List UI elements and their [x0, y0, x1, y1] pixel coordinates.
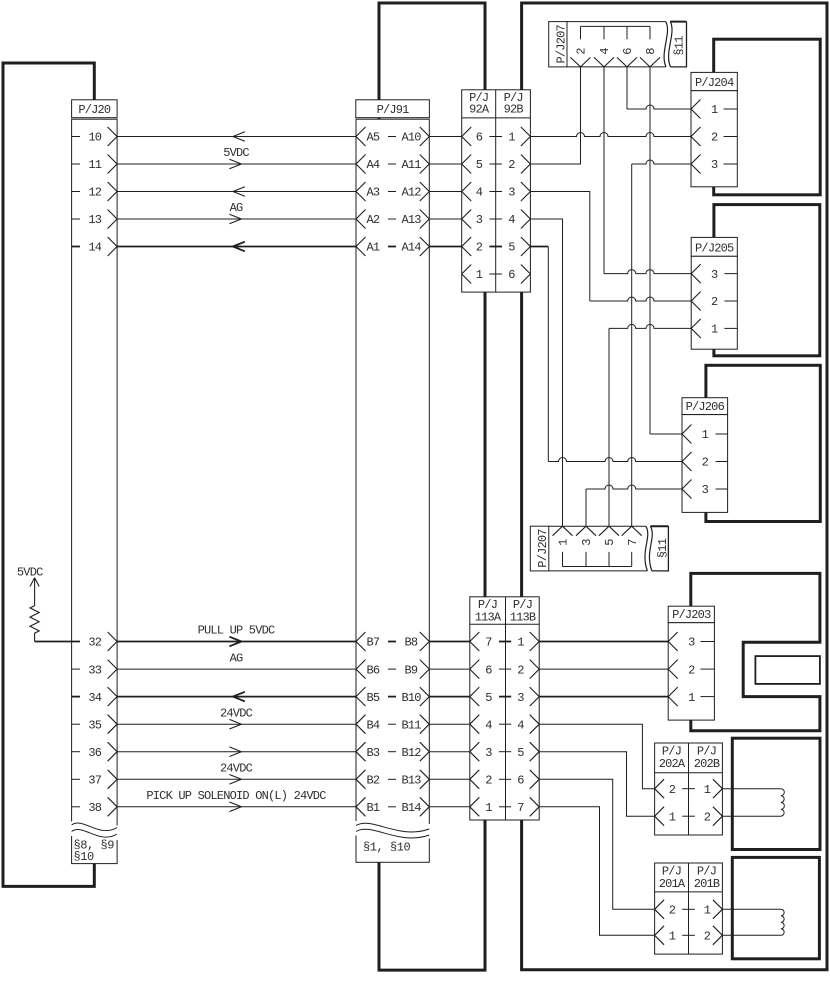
- svg-text:7: 7: [517, 801, 524, 815]
- P/J207 upper break wave and §11 box: [669, 22, 687, 67]
- svg-text:2: 2: [517, 663, 524, 677]
- svg-text:14: 14: [88, 241, 101, 255]
- P/J204 pin 2: [691, 127, 737, 146]
- svg-text:B5: B5: [367, 691, 380, 705]
- svg-text:A11: A11: [402, 158, 422, 172]
- connector P/J206 body: [682, 415, 728, 513]
- P/J20 pin 32: [88, 632, 117, 651]
- svg-text:5: 5: [508, 241, 515, 255]
- svg-text:B11: B11: [402, 718, 422, 732]
- svg-text:37: 37: [88, 774, 101, 788]
- svg-text:202B: 202B: [694, 757, 720, 771]
- svg-text:3: 3: [711, 158, 718, 172]
- right board outline (feeder unit): [522, 3, 827, 970]
- connector P/J205 header: [691, 237, 737, 256]
- P/J91 pin B2-B13: [356, 770, 429, 789]
- connector P/J203 body: [668, 623, 714, 720]
- P/J92A pin 6 / P/J92B pin 1: [462, 127, 531, 146]
- P/J113A pin 5 / P/J113B pin 3: [470, 687, 539, 706]
- wire P/J91 A13 to P/J92A pin 3: [429, 218, 461, 220]
- P/J91 pin A5-A10: [356, 127, 429, 146]
- svg-text:2: 2: [485, 774, 492, 788]
- P/J20 body break wave: [70, 822, 119, 841]
- svg-text:2: 2: [688, 663, 695, 677]
- svg-text:12: 12: [88, 186, 101, 200]
- P/J20 pin 35: [72, 715, 118, 734]
- P/J91 pin B6-B9: [356, 660, 429, 679]
- wire P/J205 pin 1 to P/J207 lower pin 5: [609, 324, 691, 328]
- svg-text:2: 2: [711, 131, 718, 145]
- P/J20 pin 14: [72, 237, 118, 256]
- P/J207 upper pin 4: [594, 48, 614, 67]
- wire P/J20 pin 37 to P/J91 B2: [117, 762, 356, 785]
- svg-text:1: 1: [702, 428, 709, 442]
- svg-text:AG: AG: [230, 651, 243, 665]
- svg-text:B13: B13: [402, 774, 422, 788]
- svg-text:1: 1: [711, 323, 718, 337]
- svg-text:B6: B6: [367, 663, 380, 677]
- svg-text:4: 4: [476, 186, 483, 200]
- P/J203 pin 2: [668, 660, 714, 679]
- svg-text:P/J205: P/J205: [695, 242, 734, 256]
- svg-text:A1: A1: [367, 241, 380, 255]
- svg-text:§11: §11: [672, 36, 686, 56]
- P/J201A pin 2 / P/J201B pin 1: [655, 900, 723, 919]
- svg-text:B1: B1: [367, 801, 380, 815]
- P/J92A pin 3 / P/J92B pin 4: [462, 210, 531, 229]
- P/J113A pin 2 / P/J113B pin 6: [470, 770, 539, 789]
- svg-text:P/J207: P/J207: [536, 529, 550, 568]
- svg-text:24VDC: 24VDC: [220, 762, 253, 776]
- wire P/J113B pin 1 to P/J203 pin 3: [539, 641, 668, 643]
- svg-text:13: 13: [88, 213, 101, 227]
- svg-text:6: 6: [476, 131, 483, 145]
- svg-text:24VDC: 24VDC: [220, 706, 253, 720]
- svg-text:201A: 201A: [659, 877, 686, 891]
- wire P/J20 pin 36 to P/J91 B3: [117, 747, 356, 757]
- P/J91 pin A3-A12: [356, 182, 429, 201]
- P/J113A pin 7 / P/J113B pin 1: [470, 632, 539, 651]
- P/J92A pin 4 / P/J92B pin 3: [462, 182, 531, 201]
- svg-text:§1, §10: §1, §10: [363, 841, 411, 855]
- svg-text:5: 5: [603, 539, 617, 546]
- svg-text:1: 1: [485, 801, 492, 815]
- svg-text:11: 11: [88, 158, 101, 172]
- connector P/J91 body: [356, 119, 429, 862]
- svg-text:38: 38: [88, 801, 101, 815]
- svg-text:5VDC: 5VDC: [223, 146, 249, 160]
- solenoid coil (202): [781, 789, 784, 817]
- connector P/J204 header: [691, 72, 737, 90]
- svg-text:3: 3: [580, 539, 594, 546]
- svg-text:3: 3: [688, 636, 695, 650]
- wire P/J20 pin 32 to P/J91 B7: [117, 624, 356, 647]
- P/J207 lower pin 5: [599, 526, 619, 546]
- wire solenoid coil to P/J202B pin 2: [722, 815, 781, 817]
- svg-text:1: 1: [704, 783, 711, 797]
- svg-text:10: 10: [88, 131, 101, 145]
- svg-text:B9: B9: [405, 663, 418, 677]
- P/J113A pin 6 / P/J113B pin 2: [470, 660, 539, 679]
- svg-text:A13: A13: [402, 213, 422, 227]
- wire P/J204 pin 3 to P/J207 lower pin 7: [632, 160, 691, 164]
- wire P/J20 pin 35 to P/J91 B4: [117, 706, 356, 729]
- svg-text:PULL UP 5VDC: PULL UP 5VDC: [198, 624, 275, 638]
- svg-text:2: 2: [702, 456, 709, 470]
- svg-text:6: 6: [621, 48, 635, 55]
- wire P/J91 B10 to P/J113A pin 5: [429, 696, 470, 698]
- wire P/J113B pin 4 to P/J202A pin 2: [539, 724, 654, 789]
- connector P/J113A / P/J113B: [470, 597, 539, 820]
- svg-text:202A: 202A: [659, 757, 686, 771]
- wire P/J20 pin 11 to P/J91 A4: [117, 146, 356, 169]
- svg-text:4: 4: [485, 718, 492, 732]
- connector P/J203 header: [668, 606, 714, 623]
- motor box at P/J206: [706, 365, 820, 521]
- P/J202A pin 1 / P/J202B pin 2: [655, 807, 723, 826]
- svg-text:2: 2: [669, 783, 676, 797]
- P/J205 pin 1: [691, 319, 737, 338]
- svg-text:§10: §10: [74, 850, 95, 864]
- P/J207 lower pin 1: [553, 526, 573, 546]
- svg-text:1: 1: [476, 268, 483, 282]
- wire P/J20 pin 13 to P/J91 A2: [117, 201, 356, 224]
- solenoid coil (201): [781, 909, 784, 935]
- 5VDC arrow up: [30, 578, 39, 606]
- svg-text:32: 32: [88, 636, 101, 650]
- motor box at P/J205: [714, 205, 820, 356]
- svg-text:4: 4: [508, 213, 515, 227]
- connector P/J91 header: [356, 100, 430, 118]
- connector P/J204 body: [691, 91, 737, 187]
- svg-text:B3: B3: [367, 746, 380, 760]
- svg-text:113B: 113B: [510, 610, 536, 624]
- svg-text:A5: A5: [367, 131, 380, 145]
- P/J205 pin 3: [691, 264, 737, 283]
- svg-text:1: 1: [704, 904, 711, 918]
- P/J91 pin B5-B10: [356, 687, 429, 706]
- P/J20 pin 36: [72, 742, 118, 761]
- P/J204 pin 3: [691, 155, 737, 174]
- svg-text:8: 8: [644, 48, 658, 55]
- P/J91 pin A2-A13: [356, 210, 429, 229]
- svg-text:113A: 113A: [475, 610, 502, 624]
- P/J113A pin 1 / P/J113B pin 7: [470, 797, 539, 816]
- wire P/J91 B12 to P/J113A pin 3: [429, 751, 470, 753]
- wire P/J91 A14 to P/J92A pin 2: [429, 246, 461, 248]
- connector P/J207 (lower): [530, 526, 647, 571]
- svg-text:B8: B8: [405, 636, 418, 650]
- P/J92A pin 1 / P/J92B pin 6: [462, 265, 531, 284]
- svg-text:2: 2: [508, 158, 515, 172]
- svg-text:2: 2: [575, 48, 589, 55]
- P/J20 pin 12: [72, 182, 118, 201]
- svg-text:3: 3: [508, 186, 515, 200]
- connector P/J202A / P/J202B: [655, 743, 723, 835]
- svg-text:4: 4: [517, 718, 524, 732]
- svg-text:3: 3: [517, 691, 524, 705]
- P/J113A pin 4 / P/J113B pin 4: [470, 715, 539, 734]
- svg-text:4: 4: [598, 48, 612, 55]
- svg-text:B4: B4: [367, 718, 380, 732]
- svg-text:A12: A12: [402, 186, 422, 200]
- sensor actuator rectangle inside P/J203 box: [755, 656, 820, 684]
- P/J20 pin 34: [72, 687, 118, 706]
- svg-text:A14: A14: [402, 241, 422, 255]
- wire P/J91 B8 to P/J113A pin 7: [429, 641, 470, 643]
- svg-text:P/J206: P/J206: [686, 400, 725, 414]
- svg-text:§11: §11: [656, 538, 670, 558]
- wire P/J91 B13 to P/J113A pin 2: [429, 778, 470, 780]
- P/J207 upper pin 6: [617, 48, 637, 67]
- wire P/J92B pin 3 to P/J205 pin 2: [530, 192, 589, 302]
- P/J92A pin 2 / P/J92B pin 5: [462, 237, 531, 256]
- P/J20 pin 33: [72, 660, 118, 679]
- wire P/J20 pin 12 to P/J91 A3: [117, 187, 356, 197]
- wire P/J207 upper pin 6 to P/J204 pin 1: [626, 67, 628, 109]
- wire P/J92B pin 2 to P/J207 upper pin 2: [530, 67, 580, 164]
- svg-text:92B: 92B: [504, 103, 524, 117]
- P/J206 pin 3: [682, 480, 728, 499]
- P/J207 upper pin 2: [571, 48, 591, 67]
- wire P/J113B pin 6 to P/J201A pin 2: [539, 779, 654, 909]
- P/J91 pin B4-B11: [356, 715, 429, 734]
- connector P/J207 (upper): [549, 22, 668, 67]
- P/J206 pin 1: [682, 425, 728, 444]
- P/J207 upper pin 8: [640, 48, 660, 67]
- svg-text:1: 1: [669, 810, 676, 824]
- svg-text:1: 1: [557, 539, 571, 546]
- svg-text:6: 6: [517, 774, 524, 788]
- P/J207 lower break wave and §11 box: [649, 526, 669, 571]
- solenoid box at P/J202: [732, 738, 820, 849]
- P/J113A pin 3 / P/J113B pin 5: [470, 742, 539, 761]
- svg-text:2: 2: [704, 930, 711, 944]
- P/J20 pin 10: [72, 127, 118, 146]
- P/J207 lower pin 7: [622, 526, 642, 546]
- svg-text:5: 5: [517, 746, 524, 760]
- wire P/J92B pin 4 to P/J207 lower pin 1: [530, 219, 562, 526]
- wire P/J207 upper pin 8 to P/J206 pin 1: [649, 67, 651, 434]
- svg-text:P/J203: P/J203: [672, 608, 711, 622]
- svg-text:B7: B7: [367, 636, 380, 650]
- P/J204 pin 1: [691, 100, 737, 119]
- svg-text:33: 33: [88, 663, 101, 677]
- wire P/J206 pin 3 to P/J207 lower pin 3: [586, 485, 682, 489]
- svg-text:P/J204: P/J204: [695, 76, 734, 90]
- wire P/J207 upper pin 4 to P/J205 pin 3: [603, 67, 605, 274]
- svg-text:A10: A10: [402, 131, 422, 145]
- wire P/J20 pin 33 to P/J91 B6: [117, 651, 356, 669]
- svg-text:1: 1: [669, 930, 676, 944]
- wire P/J20 pin 38 to P/J91 B1: [117, 789, 356, 812]
- svg-text:B14: B14: [402, 801, 422, 815]
- svg-text:1: 1: [688, 691, 695, 705]
- svg-text:7: 7: [626, 539, 640, 546]
- svg-text:AG: AG: [230, 201, 243, 215]
- svg-text:3: 3: [476, 213, 483, 227]
- sensor box at P/J203: [691, 573, 820, 730]
- svg-text:B12: B12: [402, 746, 422, 760]
- wire resistor to P/J20 pin 32: [35, 641, 80, 643]
- wire P/J201B pin 1 to solenoid coil: [722, 908, 781, 910]
- svg-text:6: 6: [485, 663, 492, 677]
- wire solenoid coil to P/J201B pin 2: [722, 934, 781, 936]
- connector P/J20 header: [72, 100, 118, 118]
- wire P/J113B pin 7 to P/J201A pin 1: [539, 807, 654, 936]
- svg-text:6: 6: [508, 268, 515, 282]
- svg-text:A4: A4: [367, 158, 380, 172]
- connector P/J20 body: [72, 119, 118, 863]
- P/J207 upper bracket (§11 group): [581, 26, 651, 39]
- connector P/J92A / P/J92B: [462, 90, 531, 292]
- svg-text:B2: B2: [367, 774, 380, 788]
- svg-text:A2: A2: [367, 213, 380, 227]
- P/J20 pin 37: [72, 770, 118, 789]
- P/J201A pin 1 / P/J201B pin 2: [655, 926, 723, 945]
- svg-text:3: 3: [702, 483, 709, 497]
- resistor R (pull up): [30, 606, 39, 642]
- wire P/J91 A10 to P/J92A pin 6: [429, 136, 461, 138]
- P/J20 pin 11: [72, 155, 118, 174]
- middle board outline (MCU PWB): [379, 3, 485, 970]
- svg-text:3: 3: [711, 268, 718, 282]
- wire P/J91 A11 to P/J92A pin 5: [429, 163, 461, 165]
- svg-text:1: 1: [711, 103, 718, 117]
- wire P/J92B pin 5 to P/J206 pin 2: [530, 246, 548, 248]
- svg-text:201B: 201B: [694, 877, 720, 891]
- P/J20 pin 13: [72, 210, 118, 229]
- wire P/J91 B11 to P/J113A pin 4: [429, 723, 470, 725]
- solenoid box at P/J201: [732, 857, 819, 958]
- wire P/J20 pin 14 to P/J91 A1: [117, 242, 356, 252]
- svg-text:A3: A3: [367, 186, 380, 200]
- svg-text:2: 2: [704, 810, 711, 824]
- wire P/J113B pin 5 to P/J202A pin 1: [539, 752, 654, 817]
- svg-text:2: 2: [476, 241, 483, 255]
- P/J20 pin 38: [72, 797, 118, 816]
- P/J203 pin 1: [668, 687, 714, 706]
- P/J92A pin 5 / P/J92B pin 2: [462, 155, 531, 174]
- wire P/J91 B14 to P/J113A pin 1: [429, 806, 470, 808]
- svg-text:34: 34: [88, 691, 101, 705]
- wire P/J20 pin 34 to P/J91 B5: [117, 692, 356, 702]
- svg-text:36: 36: [88, 746, 101, 760]
- connector P/J205 body: [691, 256, 737, 349]
- svg-text:P/J91: P/J91: [377, 103, 410, 117]
- svg-text:35: 35: [88, 718, 101, 732]
- P/J206 pin 2: [682, 452, 728, 471]
- left board outline (ESS PWB): [3, 63, 94, 886]
- wire P/J202B pin 1 to solenoid coil: [722, 788, 781, 790]
- P/J203 pin 3: [668, 632, 714, 651]
- P/J207 lower pin 3: [576, 526, 596, 546]
- svg-text:92A: 92A: [469, 103, 490, 117]
- svg-text:1: 1: [517, 636, 524, 650]
- P/J202A pin 2 / P/J202B pin 1: [655, 779, 723, 798]
- P/J91 pin A1-A14: [356, 237, 429, 256]
- P/J91 pin B3-B12: [356, 742, 429, 761]
- svg-text:5: 5: [485, 691, 492, 705]
- svg-text:B10: B10: [402, 691, 422, 705]
- wire P/J113B pin 2 to P/J203 pin 2: [539, 668, 668, 670]
- svg-text:1: 1: [508, 131, 515, 145]
- svg-text:2: 2: [711, 295, 718, 309]
- svg-text:7: 7: [485, 636, 492, 650]
- svg-text:P/J20: P/J20: [78, 103, 111, 117]
- P/J91 pin B7-B8: [356, 632, 429, 651]
- wire P/J20 pin 10 to P/J91 A5: [117, 132, 356, 142]
- svg-text:2: 2: [669, 904, 676, 918]
- svg-text:P/J207: P/J207: [554, 25, 568, 64]
- svg-text:3: 3: [485, 746, 492, 760]
- P/J91 pin B1-B14: [356, 797, 429, 816]
- P/J205 pin 2: [691, 292, 737, 311]
- wire P/J91 B9 to P/J113A pin 6: [429, 668, 470, 670]
- wire P/J91 A12 to P/J92A pin 4: [429, 191, 461, 193]
- P/J207 lower bracket (§11 group): [563, 552, 632, 567]
- P/J91 body break wave: [354, 821, 431, 839]
- svg-text:5: 5: [476, 158, 483, 172]
- P/J91 pin A4-A11: [356, 155, 429, 174]
- wire P/J92B pin 1 to P/J204 pin 2: [530, 133, 691, 137]
- motor box at P/J204: [714, 39, 821, 195]
- wire P/J113B pin 3 to P/J203 pin 1: [539, 696, 668, 698]
- svg-text:5VDC: 5VDC: [17, 566, 43, 580]
- connector P/J206 header: [682, 398, 728, 415]
- connector P/J201A / P/J201B: [655, 863, 723, 954]
- svg-text:PICK UP SOLENOID ON(L) 24VDC: PICK UP SOLENOID ON(L) 24VDC: [146, 789, 326, 803]
